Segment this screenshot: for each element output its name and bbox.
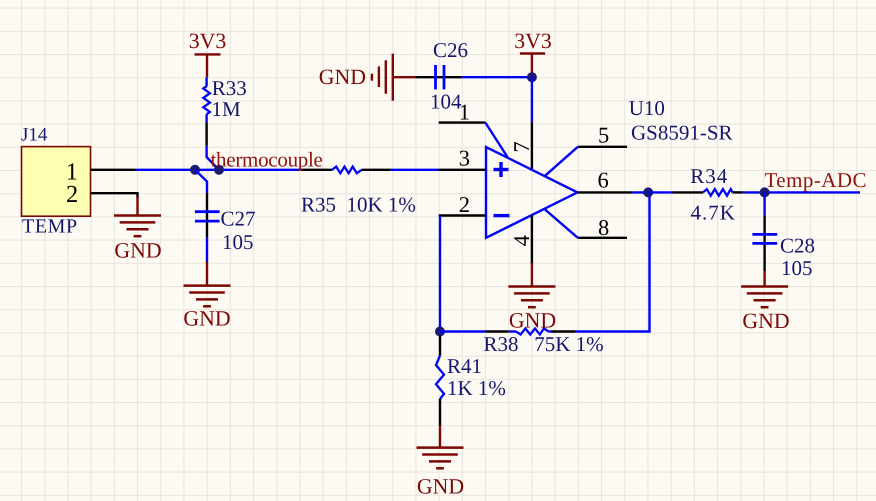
svg-text:GND: GND (417, 475, 464, 499)
svg-text:TEMP: TEMP (22, 216, 78, 238)
svg-text:C28: C28 (780, 233, 815, 257)
svg-text:7: 7 (509, 141, 534, 152)
svg-text:105: 105 (222, 230, 254, 254)
svg-text:4: 4 (509, 235, 534, 246)
svg-text:GND: GND (114, 239, 161, 263)
svg-text:GND: GND (509, 308, 556, 332)
svg-text:2: 2 (66, 181, 78, 208)
svg-text:U10: U10 (629, 96, 665, 120)
svg-text:6: 6 (598, 168, 609, 193)
svg-text:GS8591-SR: GS8591-SR (631, 121, 733, 145)
svg-text:C26: C26 (433, 38, 468, 62)
svg-text:4.7K: 4.7K (691, 200, 736, 224)
svg-text:C27: C27 (221, 207, 256, 231)
svg-text:1M: 1M (212, 97, 242, 121)
svg-text:3V3: 3V3 (189, 29, 227, 53)
svg-text:104: 104 (430, 90, 462, 114)
svg-text:J14: J14 (21, 124, 48, 145)
svg-text:R41: R41 (447, 354, 482, 378)
svg-text:8: 8 (598, 215, 609, 240)
svg-text:1: 1 (459, 99, 470, 124)
svg-text:R35 10K 1%: R35 10K 1% (301, 193, 416, 217)
svg-text:GND: GND (742, 309, 789, 333)
svg-text:2: 2 (459, 192, 470, 217)
svg-text:GND: GND (183, 306, 230, 330)
svg-text:3: 3 (459, 145, 470, 170)
svg-text:3V3: 3V3 (514, 29, 552, 53)
svg-text:thermocouple: thermocouple (211, 148, 323, 172)
svg-text:1K 1%: 1K 1% (447, 376, 506, 400)
svg-text:5: 5 (598, 122, 609, 147)
svg-text:105: 105 (781, 256, 813, 280)
svg-text:R34: R34 (690, 164, 728, 188)
svg-text:R38 75K 1%: R38 75K 1% (484, 332, 604, 356)
svg-text:Temp-ADC: Temp-ADC (765, 168, 867, 192)
svg-text:GND: GND (319, 65, 366, 89)
